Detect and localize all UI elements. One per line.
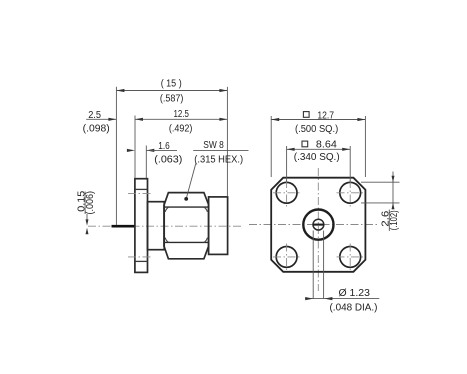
svg-text:1.6: 1.6 [158,141,170,152]
svg-text:(.098): (.098) [83,123,110,134]
center outer circle [303,210,333,240]
center pin circle [313,219,324,230]
hole centerline bottom (side) [128,256,153,258]
dim 2.6 vertical line [392,172,394,210]
hole centerlines vertical [286,180,288,207]
flange chamfer line bottom [135,260,148,262]
centerline side view [88,225,243,227]
hex nut body [164,193,209,259]
center pin [112,225,136,228]
pin slot [313,224,324,226]
mounting hole bottom-right [340,247,361,268]
ext line flange right [145,146,147,179]
hex flat line lower [164,241,209,243]
ext line pin tip [115,87,117,225]
svg-text:( 15 ): ( 15 ) [161,78,182,89]
svg-text:(.063): (.063) [154,155,182,166]
svg-text:(.102): (.102) [389,210,400,230]
square flange with chamfered corners [271,178,365,272]
svg-text:Ø 1.23: Ø 1.23 [339,288,371,299]
square symbol 12.7 [303,112,309,118]
hex chamfer arcs [165,207,169,212]
svg-text:(.048 DIA.): (.048 DIA.) [330,303,378,314]
svg-text:(.587): (.587) [160,93,184,104]
leader to hex [187,164,196,198]
ext line right end [226,87,228,197]
neck [148,202,165,250]
ext line flange left [134,116,136,179]
dim 12.7 line [271,119,365,121]
dim 0.15 leader and arrows [86,214,88,220]
mounting hole top-right [340,182,361,203]
hex flat line upper [164,206,209,208]
mounting hole top-left [276,182,297,203]
hole centerline top (side) [128,193,153,195]
dim 12.5 line [135,118,227,120]
dim 2.5 line [86,118,116,120]
svg-text:12.5: 12.5 [174,109,190,120]
square symbol 8.64 [302,141,308,147]
dim 0.15 fraction bar [84,192,86,215]
hole centerlines horizontal [273,192,300,194]
dim 8.64 line [287,148,351,150]
dim 1.6 arrows [127,149,135,152]
mounting hole bottom-left [276,247,297,268]
svg-text:(.492): (.492) [169,123,193,134]
svg-text:(.340 SQ.): (.340 SQ.) [294,152,340,163]
centerline vertical front [317,168,319,291]
ext lines 12.7 [270,116,272,177]
flange (side) [135,179,148,273]
flange chamfer line top [135,188,148,190]
dim 2.6 fraction bar [388,210,390,232]
svg-text:(.315 HEX.): (.315 HEX.) [194,155,243,166]
ext lines 8.64 [286,146,288,182]
ext lines 2.6 [361,181,400,183]
ext lines pin dia [312,231,314,299]
barrel [209,197,228,255]
svg-text:(.006): (.006) [85,191,96,215]
dim (15) line [116,90,227,92]
SW 8 label line [193,149,248,151]
svg-text:8.64: 8.64 [316,140,337,151]
dim 1.23 line [305,298,379,300]
centerline horizontal front [249,224,379,226]
svg-text:SW 8: SW 8 [203,140,224,151]
svg-text:12.7: 12.7 [317,110,334,121]
svg-text:2.5: 2.5 [88,110,101,121]
svg-text:(.500 SQ.): (.500 SQ.) [295,124,338,135]
